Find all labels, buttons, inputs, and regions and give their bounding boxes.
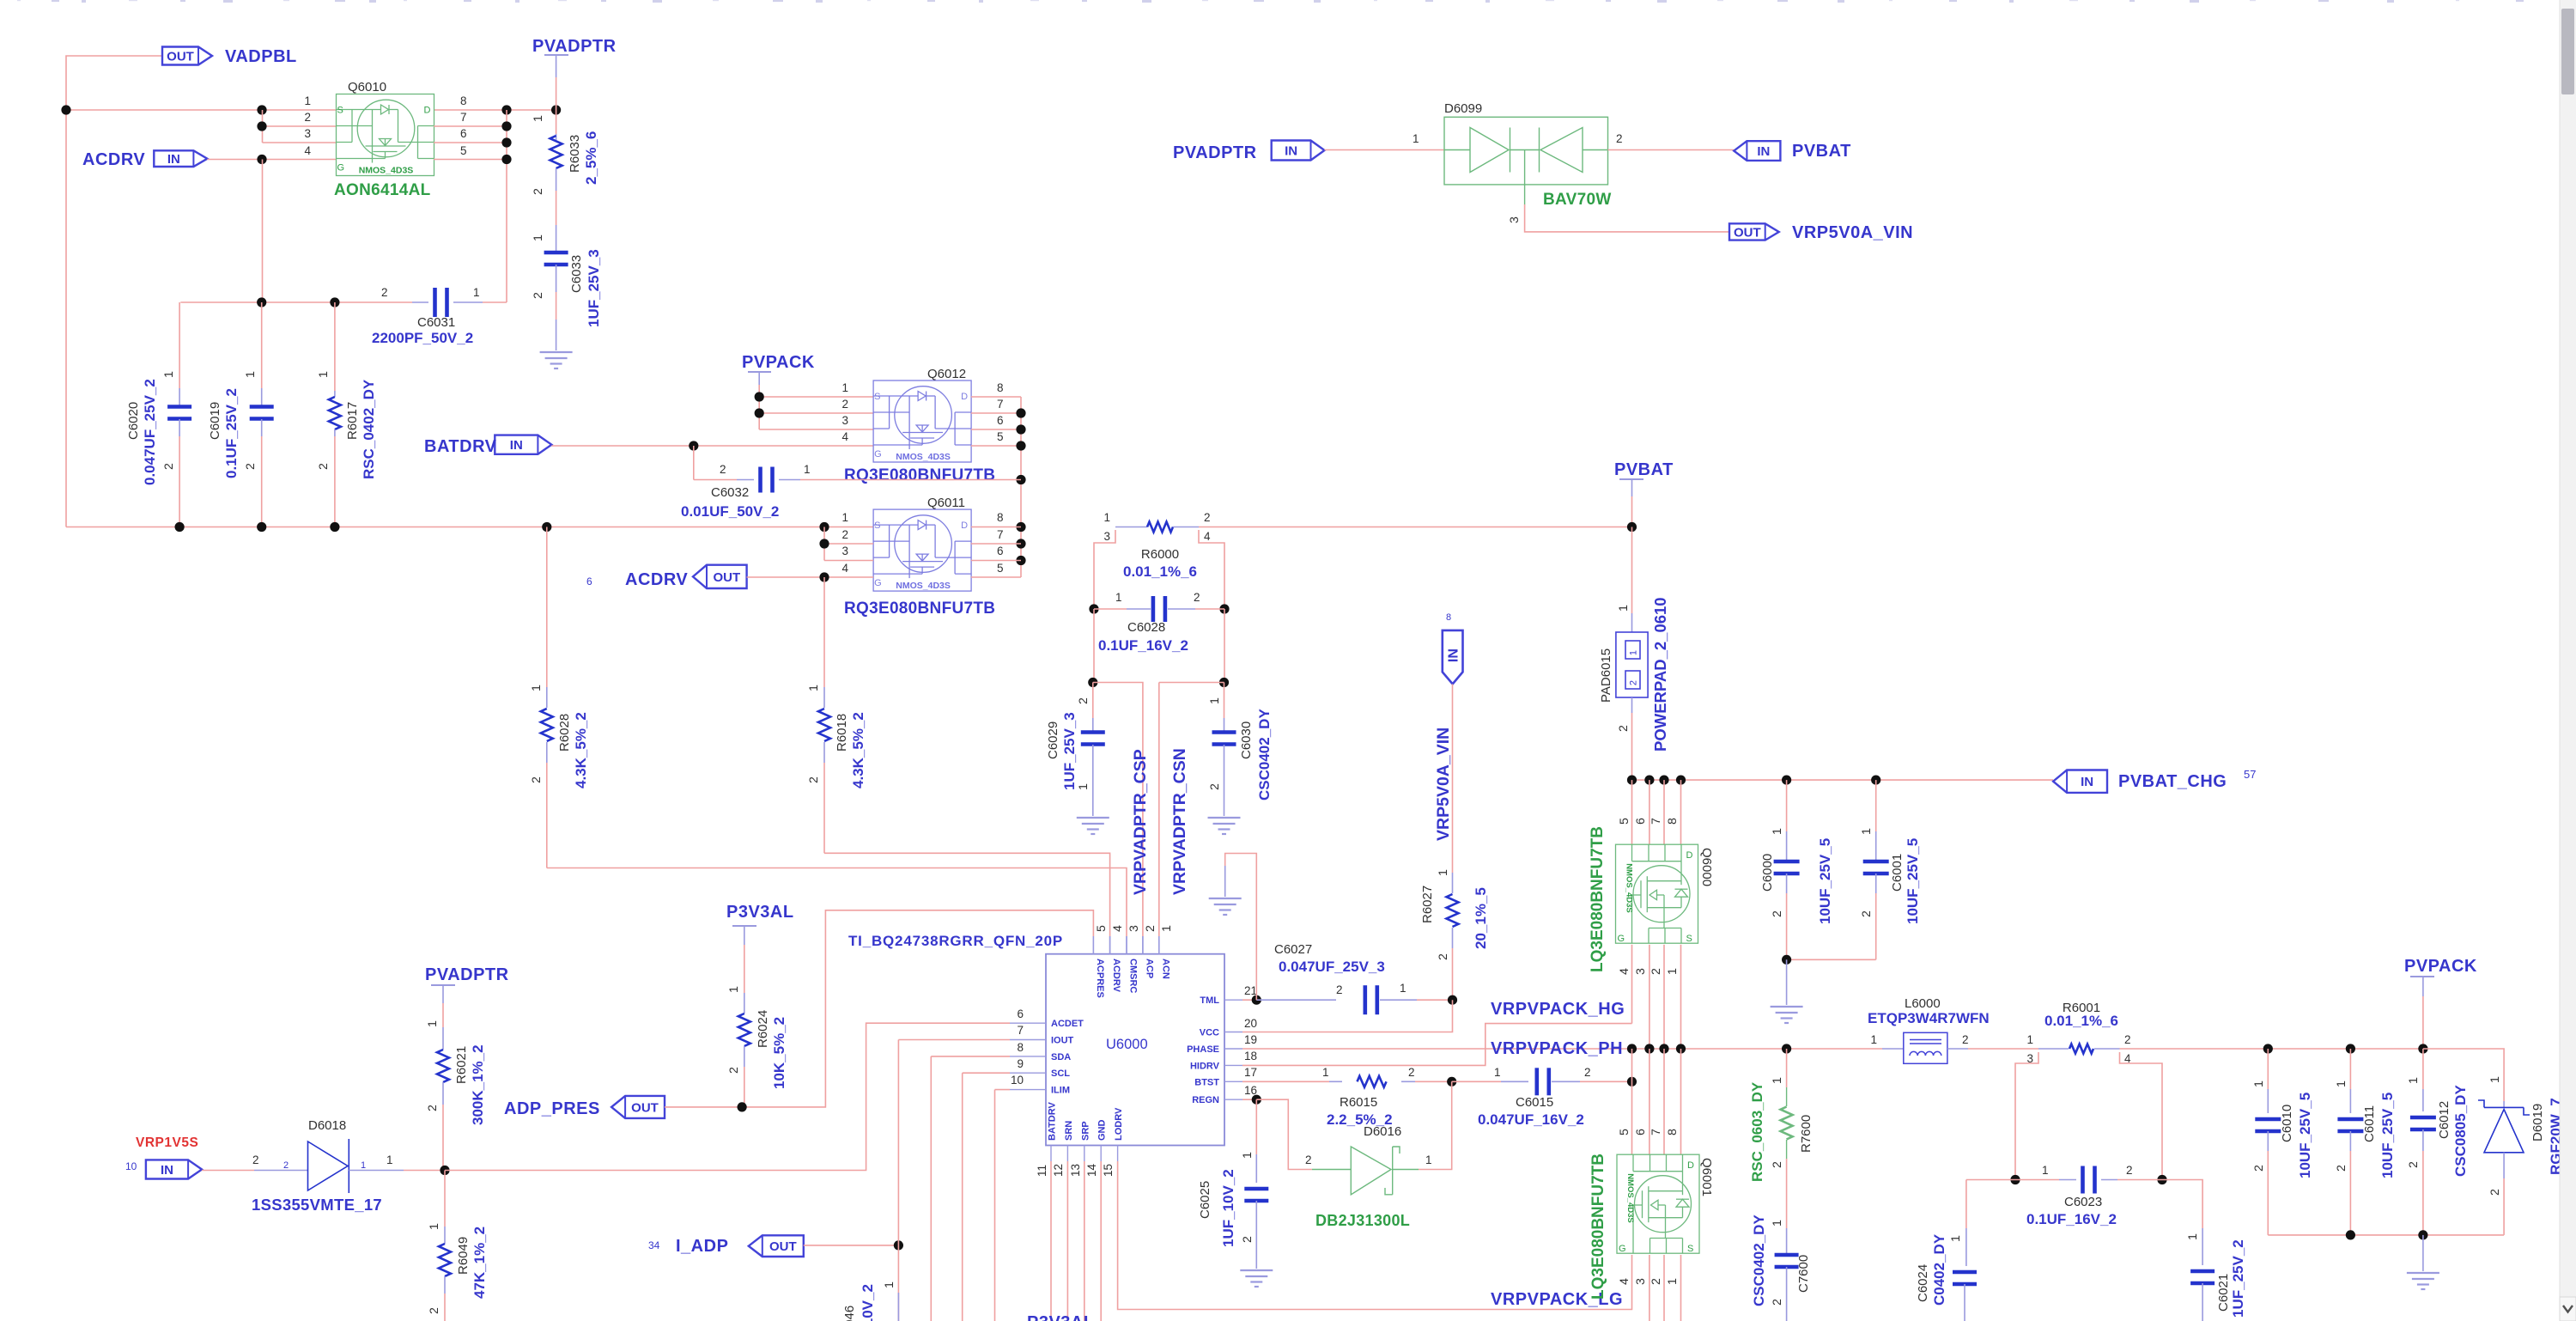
svg-text:BAV70W: BAV70W: [1543, 191, 1612, 209]
wire ACDRV net down to C6019 column: [262, 160, 264, 303]
svg-text:2: 2: [532, 188, 545, 195]
ground below C6030: [1208, 817, 1241, 819]
port IN PVBAT: [1734, 141, 1780, 161]
svg-text:G: G: [874, 578, 882, 588]
svg-text:0.01_1%_6: 0.01_1%_6: [1123, 563, 1197, 580]
svg-text:GND: GND: [1097, 1120, 1108, 1141]
svg-text:PAD6015: PAD6015: [1599, 648, 1613, 703]
svg-text:OUT: OUT: [1734, 226, 1761, 240]
svg-text:D: D: [1687, 1160, 1694, 1171]
wire TML row: [1242, 999, 1256, 1001]
svg-text:IN: IN: [161, 1163, 173, 1178]
svg-text:1: 1: [1666, 968, 1680, 975]
svg-text:IN: IN: [2081, 775, 2093, 789]
svg-text:10UF_25V_5: 10UF_25V_5: [2297, 1093, 2313, 1178]
svg-text:7: 7: [1649, 818, 1663, 825]
wire Q6012 pin2 row: [759, 412, 873, 414]
svg-text:VRPVADPTR_CSP: VRPVADPTR_CSP: [1131, 749, 1150, 895]
svg-text:1: 1: [428, 1223, 441, 1230]
svg-text:VRPVADPTR_CSN: VRPVADPTR_CSN: [1170, 748, 1189, 895]
svg-text:1UF_25V_2: 1UF_25V_2: [2230, 1239, 2246, 1318]
svg-text:6: 6: [997, 545, 1004, 557]
wire ILIM vertical: [995, 1089, 1011, 1091]
svg-text:1UF_25V_3: 1UF_25V_3: [1061, 712, 1078, 790]
capacitor C6030: [1224, 683, 1225, 719]
svg-text:2: 2: [841, 528, 848, 541]
svg-text:6: 6: [1017, 1007, 1024, 1020]
U6000 bottom pin stubs: [1050, 1146, 1052, 1162]
svg-text:C6010: C6010: [2280, 1105, 2294, 1142]
resistor R6017 column: [334, 302, 336, 391]
svg-text:4: 4: [304, 144, 311, 157]
svg-text:OUT: OUT: [713, 570, 740, 585]
svg-text:2: 2: [2126, 1164, 2133, 1177]
svg-text:5: 5: [1095, 925, 1109, 932]
svg-text:2: 2: [283, 1160, 289, 1171]
wires Q6001 source pins down: [1649, 1255, 1650, 1321]
svg-text:2: 2: [1241, 1236, 1255, 1243]
svg-text:1: 1: [1949, 1235, 1963, 1242]
svg-text:2: 2: [1649, 968, 1663, 975]
svg-text:1: 1: [304, 94, 311, 107]
capacitor C6031: [433, 288, 437, 317]
svg-text:2: 2: [1204, 511, 1211, 524]
U6000 left pin stubs: [1010, 1022, 1046, 1024]
svg-text:Q6000: Q6000: [1699, 848, 1714, 886]
svg-text:P3V3AL: P3V3AL: [1027, 1313, 1095, 1321]
svg-text:G: G: [1619, 1244, 1626, 1254]
capacitor C6033: [556, 225, 557, 253]
svg-text:18: 18: [1244, 1050, 1257, 1062]
transistor Q6011: [873, 509, 971, 591]
svg-text:1: 1: [2252, 1081, 2266, 1087]
wire Q6011 pin2 pin3: [824, 543, 873, 545]
svg-text:2: 2: [1616, 132, 1623, 145]
svg-text:21: 21: [1244, 984, 1257, 997]
svg-text:D6099: D6099: [1444, 101, 1482, 116]
svg-text:C6033: C6033: [569, 255, 584, 293]
svg-text:C6031: C6031: [417, 315, 455, 330]
svg-text:1: 1: [2335, 1081, 2348, 1087]
svg-text:G: G: [874, 449, 882, 460]
capacitor C6029: [1092, 683, 1094, 719]
svg-text:ACDRV: ACDRV: [1111, 959, 1121, 993]
svg-text:2: 2: [252, 1154, 259, 1166]
svg-text:7: 7: [1017, 1024, 1024, 1037]
svg-text:IN: IN: [1757, 144, 1770, 159]
svg-text:1: 1: [1494, 1066, 1501, 1079]
wire Q6010 pin2: [263, 125, 337, 127]
svg-text:SRP: SRP: [1080, 1121, 1091, 1141]
scrollbar arrow: [2560, 1297, 2576, 1321]
svg-text:PVBAT: PVBAT: [1614, 460, 1674, 479]
svg-text:10UF_25V_5: 10UF_25V_5: [1817, 838, 1833, 924]
svg-text:2: 2: [1860, 910, 1874, 917]
svg-text:C6019: C6019: [208, 402, 222, 440]
svg-text:16: 16: [1244, 1084, 1257, 1097]
svg-text:7: 7: [460, 111, 467, 124]
wire PHASE row VRPVPACK_PH: [1242, 1048, 1882, 1050]
svg-text:2: 2: [1194, 591, 1200, 604]
resistor R6027: [1452, 684, 1454, 873]
svg-text:0.047UF_25V_3: 0.047UF_25V_3: [1279, 959, 1385, 975]
svg-text:5: 5: [997, 430, 1004, 443]
port IN ACDRV: [154, 150, 207, 167]
capacitor C6025: [1255, 1099, 1257, 1154]
svg-text:VRPVPACK_PH: VRPVPACK_PH: [1491, 1039, 1623, 1058]
inductor L6000: [1882, 1048, 1904, 1050]
capacitor C6032: [693, 446, 695, 480]
svg-text:LODRV: LODRV: [1114, 1107, 1124, 1141]
svg-text:RSC_0603_DY: RSC_0603_DY: [1749, 1081, 1765, 1182]
svg-text:1: 1: [1400, 982, 1406, 995]
svg-text:1: 1: [1870, 1033, 1877, 1046]
svg-text:R6015: R6015: [1340, 1095, 1377, 1110]
svg-text:1: 1: [804, 463, 811, 476]
svg-text:R7600: R7600: [1799, 1115, 1814, 1153]
wire VCC to C6027: [1242, 1000, 1453, 1032]
U6000 top pin stubs: [1092, 936, 1094, 954]
svg-text:S: S: [874, 520, 880, 531]
svg-text:1: 1: [1115, 591, 1122, 604]
svg-text:ACN: ACN: [1160, 959, 1170, 979]
svg-text:13: 13: [1069, 1164, 1082, 1177]
svg-text:47K_1%_2: 47K_1%_2: [471, 1227, 488, 1299]
resistor R6015: [1329, 1081, 1342, 1082]
svg-text:2: 2: [162, 463, 176, 470]
svg-text:C6029: C6029: [1046, 721, 1060, 759]
svg-text:15: 15: [1102, 1164, 1115, 1177]
svg-text:9: 9: [1017, 1057, 1024, 1070]
svg-text:Q6011: Q6011: [927, 496, 965, 510]
capacitor C6015: [1452, 1081, 1501, 1082]
svg-text:1: 1: [841, 511, 848, 524]
svg-text:D: D: [961, 520, 968, 531]
svg-text:C6000: C6000: [1760, 854, 1775, 892]
svg-text:VADPBL: VADPBL: [225, 47, 297, 66]
svg-text:ACPRES: ACPRES: [1095, 959, 1105, 998]
svg-text:1: 1: [532, 234, 545, 241]
wire LODRV to VRPVPACK_LG: [1118, 1161, 1632, 1310]
svg-text:4: 4: [841, 430, 848, 443]
svg-text:PVADPTR: PVADPTR: [532, 37, 617, 56]
wire R6000 kelvin bracket: [1094, 530, 1115, 609]
svg-text:S: S: [337, 106, 343, 116]
svg-text:2: 2: [1336, 983, 1343, 996]
svg-text:G: G: [337, 163, 345, 173]
wire Q6011 left vertical: [823, 527, 825, 561]
wire PVBAT_CHG row: [1632, 779, 2054, 781]
decorative top edge fragments: [17, 0, 21, 1]
svg-text:NMOS_4D3S: NMOS_4D3S: [1625, 863, 1634, 913]
svg-text:1: 1: [1241, 1152, 1255, 1159]
wire Q6010 pin7: [434, 125, 507, 127]
wire PVADPTR stem: [556, 55, 557, 77]
svg-text:TI_BQ24738RGRR_QFN_20P: TI_BQ24738RGRR_QFN_20P: [848, 933, 1063, 949]
svg-text:2: 2: [807, 776, 821, 783]
svg-text:D: D: [1686, 850, 1693, 861]
svg-text:OUT: OUT: [769, 1239, 797, 1254]
svg-text:10: 10: [125, 1160, 137, 1172]
svg-text:1: 1: [2042, 1164, 2049, 1177]
svg-text:14: 14: [1085, 1163, 1098, 1177]
svg-text:VCC: VCC: [1200, 1028, 1219, 1038]
svg-text:2: 2: [2124, 1033, 2131, 1046]
svg-text:2: 2: [1144, 925, 1157, 932]
svg-text:7: 7: [997, 398, 1004, 411]
svg-text:1UF_25V_3: 1UF_25V_3: [586, 249, 602, 327]
capacitor C6019 column: [261, 302, 263, 388]
svg-text:2: 2: [727, 1067, 741, 1074]
svg-text:0.1UF_25V_2: 0.1UF_25V_2: [223, 388, 240, 478]
svg-text:D: D: [424, 106, 431, 116]
resistor R6000 current sense: [1115, 527, 1147, 528]
svg-text:D: D: [961, 392, 968, 402]
svg-text:2: 2: [841, 398, 848, 411]
svg-text:1: 1: [1208, 697, 1222, 704]
port OUT ACDRV: [693, 565, 747, 588]
scrollbar thumb: [2561, 9, 2574, 94]
svg-text:1: 1: [1160, 925, 1174, 932]
svg-text:ACP: ACP: [1144, 959, 1154, 978]
svg-text:1: 1: [530, 685, 544, 691]
svg-text:8: 8: [460, 94, 467, 107]
svg-text:2: 2: [381, 286, 388, 299]
svg-text:2: 2: [1649, 1278, 1663, 1285]
svg-text:1: 1: [1771, 1077, 1784, 1084]
U6000 right pin stubs: [1224, 999, 1242, 1001]
resistor R6021: [442, 985, 444, 1003]
capacitor C6000: [1786, 780, 1788, 831]
wires Q6000 bottom pins: [1631, 945, 1633, 1024]
svg-text:4: 4: [1618, 1278, 1631, 1285]
svg-text:2: 2: [1771, 1161, 1784, 1168]
svg-text:PVPACK: PVPACK: [2404, 957, 2477, 976]
svg-text:IOUT: IOUT: [1051, 1036, 1074, 1046]
wire Q6011 right pins: [971, 527, 1021, 528]
svg-text:1: 1: [1322, 1066, 1329, 1079]
svg-text:TML: TML: [1200, 995, 1219, 1006]
svg-text:1: 1: [1437, 869, 1450, 876]
svg-text:3: 3: [1508, 216, 1522, 223]
svg-text:C7600: C7600: [1796, 1255, 1811, 1293]
svg-text:R6028: R6028: [557, 714, 572, 752]
svg-text:REGN: REGN: [1192, 1095, 1219, 1105]
svg-text:PHASE: PHASE: [1187, 1044, 1219, 1055]
diode D6099 dual BAV70W: [1444, 117, 1608, 185]
wire Q6010 pin6: [434, 142, 507, 143]
svg-text:0.047UF_16V_2: 0.047UF_16V_2: [1478, 1111, 1584, 1128]
svg-text:S: S: [1687, 1244, 1693, 1254]
wire SDA vertical: [931, 1056, 1010, 1057]
wire TML ground branch: [1225, 854, 1257, 1001]
svg-text:19: 19: [1244, 1033, 1257, 1046]
svg-text:R6024: R6024: [756, 1010, 770, 1048]
svg-text:0.01_1%_6: 0.01_1%_6: [2044, 1013, 2118, 1029]
svg-text:RQ3E080BNFU7TB: RQ3E080BNFU7TB: [844, 600, 995, 618]
svg-text:2: 2: [530, 776, 544, 783]
svg-text:L6000: L6000: [1905, 996, 1941, 1011]
capacitor C6028: [1089, 604, 1098, 613]
svg-text:BATDRV: BATDRV: [1048, 1102, 1058, 1141]
svg-text:3: 3: [1634, 1278, 1648, 1285]
svg-text:2: 2: [1617, 725, 1631, 732]
wire PVPACK stem to Q6012: [758, 372, 760, 385]
transistor Q6010: [337, 94, 434, 176]
svg-text:8: 8: [1446, 612, 1451, 623]
wire bottom rail right: [2268, 1234, 2504, 1236]
wire D6099 pin2 to PVBAT port: [1608, 149, 1735, 151]
svg-text:1: 1: [2488, 1076, 2502, 1083]
svg-text:1: 1: [1103, 511, 1110, 524]
svg-text:U6000: U6000: [1106, 1037, 1148, 1052]
svg-text:3: 3: [1103, 530, 1110, 543]
svg-text:LQ3E080BNFU7TB: LQ3E080BNFU7TB: [1589, 1154, 1607, 1300]
wire Q6010 pin1 row / pin8 row: [66, 109, 337, 111]
svg-text:IN: IN: [167, 152, 180, 167]
svg-text:1UF_10V_2: 1UF_10V_2: [1220, 1169, 1236, 1247]
wire VADPBL net: [66, 56, 162, 527]
svg-text:G: G: [1618, 934, 1625, 944]
svg-text:0.1UF_16V_2: 0.1UF_16V_2: [2026, 1211, 2117, 1227]
svg-text:IN: IN: [1285, 144, 1297, 159]
svg-text:Q6010: Q6010: [348, 80, 386, 94]
svg-text:D6016: D6016: [1364, 1124, 1401, 1139]
svg-text:1: 1: [1629, 650, 1639, 655]
svg-text:HIDRV: HIDRV: [1190, 1061, 1220, 1071]
wire Q6012 left vertical: [758, 397, 760, 429]
svg-text:1: 1: [244, 371, 258, 378]
svg-text:3: 3: [841, 414, 848, 427]
port IN VRP5V0A_VIN vertical: [1443, 630, 1463, 685]
svg-text:S: S: [874, 392, 880, 402]
svg-text:Q6001: Q6001: [1699, 1158, 1714, 1196]
wire Q6012 right pins: [971, 396, 1021, 398]
svg-text:D6019: D6019: [2530, 1104, 2545, 1141]
svg-text:0.1UF_10V_2: 0.1UF_10V_2: [860, 1284, 876, 1321]
svg-text:2: 2: [1305, 1154, 1312, 1166]
svg-text:12: 12: [1052, 1164, 1065, 1177]
svg-text:20: 20: [1244, 1017, 1257, 1030]
svg-text:8: 8: [1666, 1129, 1680, 1135]
svg-text:ILIM: ILIM: [1051, 1086, 1070, 1096]
svg-text:6: 6: [460, 127, 467, 140]
transistor Q6000: [1616, 844, 1698, 943]
ground bottom right: [2422, 1235, 2424, 1271]
svg-text:1: 1: [841, 381, 848, 394]
resistor R7600: [1786, 1049, 1788, 1087]
capacitor C6027: [1364, 985, 1368, 1014]
wire ACDRV port to Q6011 gate: [747, 576, 874, 578]
port IN PVBAT_CHG: [2053, 770, 2107, 793]
svg-text:4: 4: [841, 562, 848, 575]
wire PHASE row to D6019: [2423, 1049, 2504, 1101]
svg-text:NMOS_4D3S: NMOS_4D3S: [896, 581, 951, 591]
svg-text:C6021: C6021: [2216, 1274, 2231, 1312]
svg-text:ETQP3W4R7WFN: ETQP3W4R7WFN: [1868, 1010, 1990, 1026]
svg-text:2: 2: [426, 1105, 440, 1111]
svg-text:1: 1: [727, 986, 741, 993]
svg-text:1: 1: [317, 371, 331, 378]
svg-text:CSC0805_DY: CSC0805_DY: [2452, 1085, 2469, 1177]
svg-text:1: 1: [532, 115, 545, 122]
port OUT VADPBL: [162, 47, 212, 65]
wire Q6012 drain vertical down to Q6011: [1020, 397, 1022, 577]
svg-text:34: 34: [648, 1239, 660, 1251]
wire BTST row: [1242, 1081, 1329, 1082]
svg-text:2: 2: [2488, 1189, 2502, 1196]
wire left rail PVADPTR row: [66, 527, 873, 528]
svg-text:2: 2: [1629, 680, 1639, 685]
resistor R6049: [444, 1171, 446, 1227]
svg-text:1: 1: [473, 286, 480, 299]
svg-text:4: 4: [1618, 968, 1631, 975]
svg-text:R6021: R6021: [454, 1046, 469, 1084]
capacitor C6001: [1875, 780, 1877, 831]
svg-text:POWERPAD_2_0610: POWERPAD_2_0610: [1651, 597, 1669, 752]
svg-text:OUT: OUT: [167, 50, 194, 64]
svg-text:3: 3: [1634, 968, 1648, 975]
svg-text:C6027: C6027: [1274, 942, 1312, 957]
svg-text:CSC0402_DY: CSC0402_DY: [1751, 1214, 1767, 1306]
svg-text:2: 2: [244, 463, 258, 470]
svg-text:2_5%_6: 2_5%_6: [583, 131, 599, 185]
svg-text:OUT: OUT: [631, 1100, 659, 1115]
svg-text:3: 3: [841, 545, 848, 557]
diode D6018: [202, 1170, 254, 1172]
svg-text:PVADPTR: PVADPTR: [1173, 143, 1257, 162]
wire Q6010 pin5: [434, 159, 507, 161]
pad PAD6015: [1631, 527, 1633, 614]
svg-text:R6017: R6017: [345, 402, 360, 440]
resistor R6018: [823, 577, 825, 687]
svg-text:2: 2: [428, 1307, 441, 1314]
svg-text:6: 6: [1634, 1129, 1648, 1135]
svg-text:2: 2: [317, 463, 331, 470]
svg-text:2: 2: [1771, 910, 1784, 917]
svg-text:R6018: R6018: [835, 714, 849, 752]
svg-text:5: 5: [1618, 1129, 1631, 1135]
svg-text:1: 1: [807, 685, 821, 691]
svg-text:VRP5V0A_VIN: VRP5V0A_VIN: [1792, 223, 1913, 242]
svg-text:R6000: R6000: [1141, 547, 1179, 562]
wires U6000 bottom pins down: [1050, 1161, 1052, 1321]
svg-text:C6023: C6023: [2064, 1195, 2102, 1209]
svg-text:2: 2: [1077, 697, 1091, 704]
svg-text:10UF_25V_5: 10UF_25V_5: [2379, 1093, 2396, 1178]
svg-text:2: 2: [2407, 1161, 2421, 1168]
svg-text:D6018: D6018: [308, 1118, 346, 1133]
svg-text:CSC0402_DY: CSC0402_DY: [1256, 709, 1273, 801]
svg-text:2: 2: [1208, 783, 1222, 790]
ground below C6033: [540, 351, 573, 353]
svg-text:IN: IN: [1447, 648, 1461, 662]
capacitor C6011: [2346, 1044, 2355, 1053]
svg-text:7: 7: [997, 528, 1004, 541]
wire I_ADP to IOUT net: [804, 1245, 899, 1246]
diode D6019: [2503, 1101, 2505, 1108]
capacitor C6020 column: [179, 302, 180, 388]
wire BATDRV to Q6012 gate: [551, 445, 873, 447]
wire ACDET net: [445, 1023, 1010, 1170]
wire Q6010 drain vertical to C6031: [506, 110, 507, 302]
wire ACDRV to Q6010 gate pin4: [207, 159, 336, 161]
svg-text:RSC_0402_DY: RSC_0402_DY: [361, 379, 377, 479]
svg-text:SDA: SDA: [1051, 1052, 1071, 1062]
svg-text:4.3K_5%_2: 4.3K_5%_2: [850, 712, 866, 788]
svg-text:2: 2: [304, 111, 311, 124]
capacitor C7600: [1786, 1209, 1788, 1228]
